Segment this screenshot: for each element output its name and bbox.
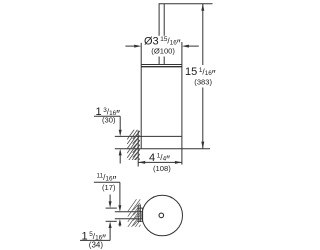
- bracket band top line: [115, 135, 182, 137]
- plate width dimension 34 arrows: [109, 195, 112, 241]
- bracket plate outer lines top view: [106, 208, 143, 221]
- cylinder bottom and 383 bottom extension line: [115, 148, 210, 150]
- svg-text:(17): (17): [102, 183, 116, 192]
- bracket plate right vertical top view: [142, 208, 144, 221]
- label (383): [194, 77, 212, 86]
- svg-text:(108): (108): [153, 164, 171, 173]
- bracket plate left vertical top view: [139, 205, 141, 222]
- svg-text:(30): (30): [102, 116, 116, 125]
- rod right line: [163, 4, 165, 36]
- rod top cap and 383 top extension line: [159, 3, 213, 5]
- leader underline for 1 5/16: [80, 239, 110, 241]
- lid top line: [141, 64, 182, 66]
- cylinder left edge: [140, 43, 142, 149]
- cylinder right edge: [181, 42, 183, 165]
- svg-text:(Ø100): (Ø100): [151, 46, 175, 55]
- diameter dimension left arrow: [125, 45, 141, 48]
- center hole circle: [159, 213, 164, 218]
- label O3 15/16 inch: [144, 36, 181, 50]
- label (O100): [151, 46, 175, 55]
- bracket arm lines top view: [115, 211, 143, 213]
- wall hatching top view: [128, 194, 141, 243]
- wall face side view: [137, 131, 139, 167]
- svg-text:(383): (383): [194, 77, 212, 86]
- wall face top view: [137, 205, 139, 222]
- lid bottom line: [141, 66, 182, 68]
- diameter dimension right arrow: [182, 45, 199, 48]
- rod left line: [158, 4, 160, 36]
- bracket height dimension 30 arrows: [119, 116, 122, 163]
- svg-text:(34): (34): [89, 241, 104, 250]
- circle body top view: [142, 195, 183, 236]
- wall hatching side view: [127, 122, 140, 177]
- label 15 1/16 inch: [185, 66, 216, 80]
- leader underline for 1 3/16: [94, 115, 120, 117]
- height dimension 383 vertical line with arrows: [201, 4, 204, 149]
- bracket width dimension 17 arrows: [118, 182, 121, 226]
- extension stubs for 34 dim: [106, 207, 117, 209]
- leader underline for 11/16: [94, 181, 120, 183]
- depth dimension 108 line with arrows: [138, 161, 182, 164]
